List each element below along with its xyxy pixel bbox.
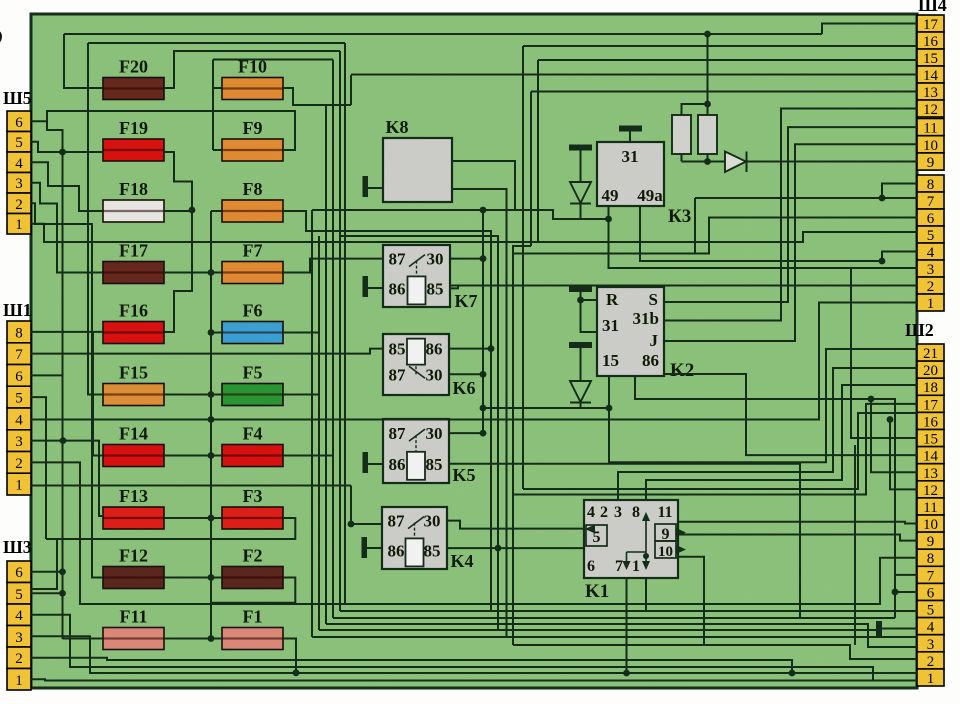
- node at K2 R: [577, 297, 584, 304]
- svg-text:6: 6: [15, 565, 23, 581]
- wire K1-7 down to bus: [626, 578, 628, 673]
- wire F6 right to x319: [283, 332, 319, 334]
- svg-text:4: 4: [927, 620, 935, 636]
- svg-text:6: 6: [15, 115, 23, 131]
- ground bar at K8: [363, 176, 369, 197]
- fuse F5: [222, 384, 283, 406]
- svg-text:5: 5: [15, 587, 23, 603]
- wire K2-86 right to Ш2 pin14: [664, 374, 917, 455]
- wire branch down to Ш3-5: [31, 539, 57, 589]
- wire branch to K4 87: [351, 486, 382, 525]
- diode VD1: [570, 182, 591, 203]
- wire K1-3 to Ш2 pin20: [618, 368, 917, 500]
- svg-text:11: 11: [923, 500, 937, 516]
- svg-text:7: 7: [15, 347, 23, 363]
- wire Ш2-6 stub: [895, 591, 917, 593]
- svg-text:12: 12: [923, 483, 938, 499]
- wire Ш3-6 stub: [31, 571, 63, 573]
- svg-text:3: 3: [927, 637, 935, 653]
- node K2-15 diode junction: [606, 405, 613, 412]
- wire loop4 left vertical: [212, 60, 214, 151]
- node resistor bottom: [704, 158, 711, 165]
- node on top line: [704, 31, 711, 38]
- fuse F13: [103, 507, 164, 529]
- node F5 feed: [208, 391, 215, 398]
- fuse F12: [103, 567, 164, 589]
- node x483 top on K3 line: [480, 207, 487, 214]
- wire F13 right to node: [164, 517, 211, 519]
- relay K1: [584, 500, 678, 578]
- wire bundle vertical x312: [311, 210, 313, 637]
- fuse F18: [103, 200, 164, 222]
- ground bar left of K2: [569, 342, 592, 348]
- node Ш4 pin8 tie: [879, 195, 886, 202]
- wire Ш1-7 to K6 85: [31, 349, 383, 354]
- wire Ш5-3 to F17 left: [31, 183, 103, 273]
- svg-text:7: 7: [927, 194, 935, 210]
- wire Ш3-4 bottom line: [31, 615, 873, 681]
- wire Ш4 pin8 to node: [882, 184, 917, 199]
- fuse F20: [103, 78, 164, 100]
- fuse F15: [103, 384, 164, 406]
- wire node to top line: [707, 34, 709, 104]
- wire bus y236 down x498: [340, 236, 498, 630]
- wire F12 right to node: [164, 577, 211, 579]
- wire K1-9 to Ш2 pin9: [678, 535, 917, 541]
- fuse F7: [222, 262, 283, 284]
- wire F14 right to node: [164, 455, 211, 457]
- wire F11 right to node: [164, 638, 211, 640]
- wire to F6 left: [211, 332, 222, 334]
- svg-text:1: 1: [15, 478, 23, 494]
- relay K6: [383, 334, 449, 395]
- wire K4-30 to K1-5: [447, 521, 584, 529]
- svg-text:2: 2: [15, 197, 23, 213]
- wire diode to node: [580, 204, 582, 220]
- svg-text:5: 5: [927, 603, 935, 619]
- wire line to Ш4 pin15: [538, 59, 917, 61]
- wire bundle vertical x345: [344, 43, 346, 604]
- svg-text:15: 15: [923, 51, 938, 67]
- svg-text:16: 16: [923, 414, 939, 430]
- wire R1 top to node: [682, 104, 709, 115]
- wire jog vertical: [350, 75, 352, 105]
- ground bar at Ш2 pin4: [876, 621, 882, 637]
- fuse F16: [103, 322, 164, 344]
- svg-text:4: 4: [15, 156, 23, 172]
- svg-text:10: 10: [923, 138, 938, 154]
- svg-text:6: 6: [927, 586, 935, 602]
- wire K2-86 to Ш2 7/6 chain: [635, 376, 895, 575]
- wire bus y246: [513, 246, 531, 254]
- wire bottom line y624 to Ш2 pin3: [326, 624, 917, 647]
- fuse F1: [222, 628, 283, 650]
- wire K1-8 to Ш2 pin18: [646, 385, 917, 500]
- wire line to Ш4 pin7: [695, 197, 917, 199]
- wire Ш1-3 to F13 left: [63, 441, 103, 516]
- node x211 on line: [208, 416, 215, 423]
- wire F15 right to node: [164, 394, 211, 396]
- wire diode to Ш4 pin9: [747, 161, 918, 163]
- svg-text:1: 1: [927, 671, 935, 687]
- node K7-30: [480, 255, 487, 262]
- svg-text:9: 9: [927, 155, 935, 171]
- wire F1 right down to node: [283, 639, 296, 673]
- node Ш1-3: [60, 437, 67, 444]
- node K6-30: [480, 371, 487, 378]
- wire K7-85 long line to Ш4 pin2: [450, 285, 917, 287]
- wire K4-85 to K1 left: [447, 547, 584, 549]
- node F1 feed: [208, 635, 215, 642]
- wire Ш1-6 stub: [31, 374, 63, 376]
- wire Ш5-2 down chain to F12: [31, 203, 103, 577]
- svg-text:8: 8: [927, 551, 935, 567]
- fuse F2: [222, 567, 283, 589]
- wire F8 right down x491: [283, 211, 491, 611]
- node Ш3-6: [59, 568, 66, 575]
- node x483 y408: [480, 405, 487, 412]
- node on long line: [887, 416, 894, 423]
- wire ground to K5 86: [368, 463, 383, 465]
- wire F7 right to K7 87: [283, 259, 383, 273]
- relay K5: [383, 419, 449, 483]
- wire ground to K8: [368, 187, 383, 189]
- svg-text:11: 11: [923, 121, 937, 137]
- svg-text:5: 5: [15, 391, 23, 407]
- wire F19 right to F16 right: [164, 152, 192, 332]
- relay K8: [383, 138, 452, 202]
- wire bar to diode VD3: [580, 348, 582, 381]
- wire Ш3-2 bottom line: [31, 658, 792, 673]
- svg-text:1: 1: [15, 673, 23, 689]
- wire K2-15 to Ш2 pin21: [609, 349, 917, 462]
- node F19 feed: [59, 149, 66, 156]
- svg-text:Ш4: Ш4: [918, 0, 947, 15]
- node K6-86 on x491: [488, 345, 495, 352]
- wire K2-J to Ш4 pin10: [664, 144, 917, 341]
- relay K2: [597, 287, 664, 376]
- svg-text:16: 16: [923, 34, 939, 50]
- svg-text:4: 4: [15, 412, 23, 428]
- wire bar to diode VD1: [580, 150, 582, 182]
- ground bar above K3: [619, 126, 642, 132]
- node Ш3-5: [59, 590, 66, 597]
- wire Ш1-1 long line to K4 branch: [31, 485, 351, 487]
- svg-text:2: 2: [15, 456, 23, 472]
- svg-text:7: 7: [927, 568, 935, 584]
- wire bundle vertical x319: [318, 236, 320, 630]
- diode VD2: [725, 152, 746, 173]
- wire K5-30 to x483: [449, 432, 483, 434]
- svg-text:17: 17: [923, 17, 939, 33]
- wire vertical fuse bus x211: [210, 211, 212, 639]
- svg-text:13: 13: [923, 85, 938, 101]
- svg-text:6: 6: [15, 369, 23, 385]
- diode VD3: [570, 381, 591, 402]
- wire R2 bottom: [707, 154, 709, 162]
- node on 673 line: [789, 670, 796, 677]
- wire bar to K3 top: [629, 131, 631, 142]
- relay K7: [383, 245, 450, 307]
- wire K8 lower right down chain: [452, 189, 507, 637]
- fuse F17: [103, 262, 164, 284]
- wire to F1 left: [211, 638, 222, 640]
- node F6 feed: [208, 329, 215, 336]
- fuse F10: [222, 78, 283, 100]
- wire loop to F20 left: [64, 34, 103, 88]
- wire K3-49a to Ш4 pin4: [640, 206, 917, 261]
- wire K7-85 jog: [450, 286, 458, 289]
- svg-text:12: 12: [923, 102, 938, 118]
- fuse F6: [222, 322, 283, 344]
- ground bar at K4: [362, 537, 368, 558]
- wire F2 right loop to x211: [211, 578, 295, 603]
- wire node to K2 31: [581, 300, 598, 332]
- wire vertical x695: [694, 198, 696, 254]
- wire K2-S to Ш4 pin11: [664, 127, 917, 302]
- wire bus to Ш4 pin6: [513, 218, 917, 254]
- wire Ш5-4 to F18 left: [31, 162, 103, 211]
- wire F17 right to node: [164, 272, 211, 274]
- wire F20 right loop3: [164, 51, 340, 88]
- ground bar above K2 R: [569, 286, 592, 292]
- wire Ш5-5 to F19 left: [31, 142, 103, 152]
- svg-text:2: 2: [15, 651, 23, 667]
- ground bar at K7: [363, 276, 369, 297]
- wire line to Ш2 pin17: [513, 404, 917, 495]
- fuse F3: [222, 507, 283, 529]
- svg-text:20: 20: [923, 363, 938, 379]
- svg-text:Ш1: Ш1: [3, 300, 32, 320]
- resistor R2: [698, 115, 717, 154]
- svg-text:14: 14: [923, 68, 939, 84]
- node at K4 87: [348, 521, 355, 528]
- svg-text:В: В: [0, 1, 3, 57]
- wire F4 right to bundle: [283, 455, 333, 457]
- wire branch to Ш2 pin13: [871, 399, 917, 472]
- wire line to Ш4 pin16: [523, 45, 917, 47]
- node under K3 49: [605, 216, 612, 223]
- wire Ш1-8 to F16 left: [31, 331, 103, 333]
- wire R1 bottom: [681, 154, 683, 162]
- wire K3-49 to Ш4 pin3: [609, 206, 918, 268]
- relay K4: [382, 507, 447, 569]
- wire top line from x64: [64, 33, 822, 35]
- svg-text:4: 4: [927, 245, 935, 261]
- wire to F2 left: [211, 577, 222, 579]
- wire line to Ш2 pin16: [523, 413, 917, 489]
- wire loop2 left vertical to F15: [88, 43, 103, 395]
- wire K1-10 down to bus: [678, 557, 704, 645]
- wire ground to K4 86: [367, 547, 382, 549]
- wire Ш3-3 long line to Ш2 pin1: [31, 636, 917, 673]
- fuse F14: [103, 445, 164, 467]
- fuse F9: [222, 139, 283, 161]
- wire resistor bottom line to diode: [682, 161, 726, 163]
- svg-text:6: 6: [927, 211, 935, 227]
- wire branch to Ш2 pin12: [890, 420, 917, 490]
- wire diode to node line: [580, 403, 582, 409]
- svg-text:10: 10: [923, 517, 938, 533]
- resistor R1: [672, 115, 691, 154]
- wire F18 right to node: [164, 210, 193, 212]
- wire K1-1 down to bus y611: [645, 578, 647, 611]
- node resistor top: [704, 101, 711, 108]
- ground bar left of K3: [569, 145, 592, 151]
- wire Ш1-2 to Ш2 pin8: [31, 462, 917, 604]
- wire branch to F14 left: [93, 332, 103, 456]
- wire K6-86 right: [449, 348, 491, 350]
- wire to F10 left: [213, 87, 222, 89]
- wire to Ш4 pin17: [822, 24, 917, 35]
- wire line to Ш4 pin13: [531, 91, 917, 93]
- fuse F11: [103, 628, 164, 650]
- wire loop2 top: [88, 42, 345, 44]
- wire F3 right loop left: [46, 518, 295, 539]
- wire Ш3-5 stub: [31, 592, 63, 594]
- fuse F19: [103, 139, 164, 161]
- wire F5 right to bundle: [283, 394, 319, 396]
- wire vertical x483: [482, 210, 484, 433]
- svg-text:2: 2: [927, 654, 935, 670]
- fuse F4: [222, 445, 283, 467]
- svg-text:3: 3: [927, 262, 935, 278]
- node F4 feed: [208, 452, 215, 459]
- wire long vertical x326: [325, 105, 327, 624]
- wire bundle vertical x333: [332, 60, 334, 619]
- wire bar to K2 R: [581, 292, 598, 300]
- wire Ш5-6 to F9 right: [31, 111, 295, 150]
- svg-text:1: 1: [15, 217, 23, 233]
- node K5-30: [480, 430, 487, 437]
- svg-text:3: 3: [15, 434, 23, 450]
- wire vertical x538: [537, 60, 539, 242]
- node F2 feed: [208, 574, 215, 581]
- wire K2-31b to Ш4 pin12: [664, 109, 917, 321]
- node branch Ш2-13: [879, 258, 886, 265]
- svg-text:5: 5: [15, 135, 23, 151]
- wire K1-11 to Ш2 pin10: [678, 522, 917, 524]
- node F7 feed: [208, 269, 215, 276]
- svg-text:18: 18: [923, 380, 938, 396]
- wire bottom line y637 to Ш2 pin3: [312, 636, 917, 638]
- svg-text:9: 9: [927, 534, 935, 550]
- svg-text:4: 4: [15, 608, 23, 624]
- svg-text:17: 17: [923, 397, 939, 413]
- wire vertical x531: [530, 92, 532, 247]
- node F18 right junction: [189, 207, 196, 214]
- wire line to K3 node: [312, 210, 609, 219]
- wire to F9 left: [213, 149, 222, 151]
- wire bottom line y645 to Ш2 pin2: [513, 645, 917, 659]
- wire K5-85 to bottom bus: [449, 464, 800, 618]
- wire x62 chain to F11 left: [63, 638, 104, 640]
- node Ш2 6/7 tie: [892, 589, 899, 596]
- wire loop4 top: [213, 59, 333, 61]
- svg-text:15: 15: [923, 432, 938, 448]
- wire to F7 left: [211, 272, 222, 274]
- wire F10 right down: [283, 88, 351, 105]
- svg-text:3: 3: [15, 630, 23, 646]
- node F2 on y673: [293, 669, 300, 676]
- wire bar to Ш2 pin4: [882, 628, 917, 630]
- ground bar at K5: [363, 452, 369, 473]
- wire x211 top corner to F8 left: [211, 210, 222, 212]
- node on K2-86 line: [868, 396, 875, 403]
- relay K3: [597, 142, 664, 206]
- node K1-7 on y673: [623, 670, 630, 677]
- svg-text:8: 8: [15, 325, 23, 341]
- wire to F4 left: [211, 455, 222, 457]
- wire vertical x855 down to bus: [854, 445, 856, 645]
- node F3 feed: [208, 515, 215, 522]
- wire to F5 left: [211, 394, 222, 396]
- svg-text:5: 5: [927, 228, 935, 244]
- svg-text:13: 13: [923, 466, 938, 482]
- wire ground to K7 86: [368, 287, 383, 289]
- svg-text:2: 2: [927, 279, 935, 295]
- node K4-85 tie: [495, 545, 502, 552]
- svg-text:Ш5: Ш5: [3, 88, 32, 108]
- wire Ш1-5 down to 539 line: [31, 397, 46, 539]
- wire Ш2-7 down: [895, 575, 917, 618]
- wire R2 top: [707, 104, 709, 115]
- wire to F3 left: [211, 517, 222, 519]
- svg-text:21: 21: [923, 346, 938, 362]
- svg-text:1: 1: [927, 296, 935, 312]
- svg-text:Ш3: Ш3: [3, 537, 32, 557]
- wire vertical x523: [522, 46, 524, 489]
- svg-text:14: 14: [923, 449, 939, 465]
- wire bottom line y630 to ground bar: [319, 629, 876, 631]
- wire K7-30 to x483: [450, 258, 483, 260]
- wire K8 upper right down to K3 line: [452, 161, 515, 210]
- wire K6-30 to x483: [449, 373, 483, 375]
- svg-text:8: 8: [927, 177, 935, 193]
- wire Ш1-4 long line to Ш4 pin1: [31, 303, 917, 420]
- wire Ш5-1 long line to Ш4 pin5: [31, 224, 917, 242]
- wire bottom line y618: [333, 617, 895, 619]
- fuse F8: [222, 200, 283, 222]
- wire vertical x513 down: [512, 254, 514, 646]
- wire long left vertical x62: [47, 121, 63, 639]
- wire bottom line y611 to Ш2 pin5: [340, 610, 917, 612]
- wire Ш1-3 stub: [31, 440, 63, 442]
- wire bundle vertical x340: [339, 51, 341, 611]
- wire long line to Ш4 pin14: [351, 74, 917, 76]
- wire Ш3-1 long line to Ш2 pin1: [31, 679, 917, 680]
- wire branch to Ш2 pin15: [851, 268, 917, 438]
- wire line y408: [483, 407, 609, 409]
- svg-text:3: 3: [15, 176, 23, 192]
